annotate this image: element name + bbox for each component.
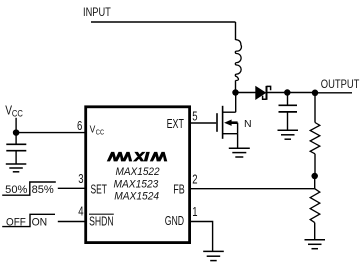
node output cap junction (284, 89, 291, 96)
svg-text:OUTPUT: OUTPUT (321, 77, 360, 91)
inductor L1 (235, 40, 241, 81)
svg-text:ON: ON (32, 216, 48, 228)
wire cap node to divider node (287, 92, 315, 94)
wire input horizontal (91, 21, 236, 23)
ground under C1 (6, 164, 27, 172)
svg-text:MAX1523: MAX1523 (114, 178, 160, 190)
node VCC junction (13, 129, 20, 136)
svg-text:V: V (90, 125, 96, 136)
svg-text:MAX1524: MAX1524 (114, 191, 159, 203)
svg-text:CC: CC (96, 128, 105, 137)
wire input vertical to inductor (235, 22, 237, 40)
svg-text:EXT: EXT (167, 116, 184, 131)
svg-text:MAX1522: MAX1522 (116, 166, 160, 178)
node junction inductor/drain/diode (232, 89, 239, 96)
resistor R1 (310, 93, 320, 176)
wire VCC down (15, 118, 17, 133)
node FB tap (311, 173, 318, 180)
pin label VCC (90, 125, 105, 137)
wire diode cathode to output cap node (267, 92, 287, 94)
node VCC supply label (5, 102, 23, 118)
diode D1 schottky (255, 86, 270, 100)
ground under C2 (278, 130, 299, 139)
svg-text:5: 5 (192, 109, 197, 124)
MAXIM logo (107, 152, 168, 162)
capacitor C1 (6, 133, 26, 164)
wire SET pin 3 (58, 187, 85, 189)
svg-text:CC: CC (12, 109, 23, 119)
svg-text:SET: SET (91, 182, 108, 197)
svg-text:N: N (244, 118, 252, 130)
svg-text:GND: GND (165, 213, 184, 228)
svg-text:2: 2 (192, 172, 197, 187)
ground under N1 source (229, 148, 250, 157)
wire SHDN pin 4 (58, 221, 85, 223)
svg-text:FB: FB (173, 182, 185, 197)
wire GND pin 1 (191, 222, 213, 252)
wire output (315, 92, 352, 94)
wire FB horizontal (191, 188, 315, 190)
transistor N1 (NMOS) (191, 93, 238, 149)
svg-text:3: 3 (78, 171, 83, 186)
SET level annotation 50%/85% (2, 182, 56, 196)
wire EXT to gate (191, 122, 216, 124)
ground under GND pin (203, 251, 224, 260)
svg-text:4: 4 (78, 203, 83, 218)
node divider junction (312, 90, 319, 97)
wire node to diode anode (236, 92, 256, 94)
SHDN level annotation OFF/ON (2, 214, 55, 228)
ground under R2 (305, 240, 326, 249)
svg-text:85%: 85% (32, 184, 54, 196)
svg-text:6: 6 (77, 118, 82, 133)
svg-text:INPUT: INPUT (83, 5, 111, 19)
resistor R2 (310, 189, 320, 240)
svg-text:1: 1 (192, 204, 197, 219)
wire inductor to node (235, 81, 237, 93)
svg-text:SHDN: SHDN (89, 214, 114, 229)
pin label SHDN with overline (89, 214, 114, 229)
capacitor C2 output (279, 93, 298, 130)
svg-text:50%: 50% (5, 184, 27, 196)
wire FB tap down (314, 176, 316, 189)
wire VCC to pin 6 (16, 132, 85, 134)
op-amp U1 MAX1522 IC box (86, 107, 190, 243)
